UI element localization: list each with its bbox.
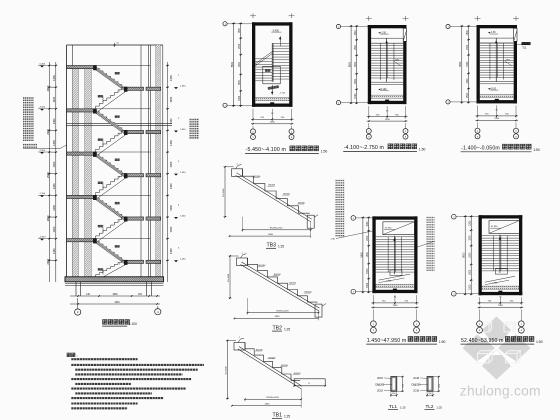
svg-text:8@200: 8@200 — [256, 350, 264, 352]
svg-text:1450: 1450 — [52, 183, 56, 189]
svg-text:1450: 1450 — [169, 161, 173, 167]
svg-text:-1.400~-0.050m: -1.400~-0.050m — [461, 146, 500, 152]
svg-text:1:50: 1:50 — [321, 150, 328, 154]
svg-text:9X280=2520: 9X280=2520 — [276, 310, 289, 312]
svg-text:1.450: 1.450 — [180, 86, 186, 88]
svg-text:-4.000: -4.000 — [39, 107, 46, 109]
svg-text:J: J — [453, 217, 454, 219]
svg-text:2900: 2900 — [46, 258, 50, 264]
svg-text:zhulong.com: zhulong.com — [460, 383, 541, 398]
svg-text:2C18: 2C18 — [413, 390, 419, 393]
svg-text:5600: 5600 — [350, 61, 352, 67]
svg-text:1450: 1450 — [52, 75, 56, 81]
svg-text:1500: 1500 — [239, 79, 241, 85]
svg-text:2900: 2900 — [46, 85, 50, 91]
svg-text:-1.100: -1.100 — [39, 193, 46, 195]
svg-text:9X280=2520: 9X280=2520 — [266, 397, 279, 399]
svg-text:1500: 1500 — [355, 44, 357, 50]
svg-text:1500: 1500 — [393, 305, 399, 307]
svg-text:1:25: 1:25 — [284, 415, 290, 419]
svg-text:1500: 1500 — [467, 44, 469, 50]
svg-text:1450: 1450 — [52, 118, 56, 124]
svg-text:1:25: 1:25 — [284, 327, 290, 331]
svg-text:8@200: 8@200 — [254, 176, 262, 178]
svg-text:1:25: 1:25 — [278, 245, 284, 249]
svg-text:-4.100~-2.750 m: -4.100~-2.750 m — [344, 145, 384, 151]
svg-text:1500: 1500 — [355, 61, 357, 67]
svg-text:1500: 1500 — [355, 93, 357, 99]
svg-text:2C18: 2C18 — [377, 377, 383, 380]
svg-text:J: J — [338, 103, 339, 105]
svg-text:-2.550: -2.550 — [39, 150, 46, 152]
svg-text:TL1: TL1 — [522, 47, 527, 50]
svg-text:TL1: TL1 — [389, 404, 397, 409]
svg-text:J: J — [353, 292, 354, 294]
svg-text:12x260: 12x260 — [103, 267, 105, 274]
svg-text:J: J — [338, 27, 339, 29]
svg-text:1:25: 1:25 — [400, 406, 406, 410]
svg-text:1:100: 1:100 — [129, 322, 137, 326]
svg-text:8@200: 8@200 — [281, 365, 289, 367]
svg-text:1500: 1500 — [239, 27, 241, 33]
svg-text:8@200: 8@200 — [283, 194, 291, 196]
svg-text:8@200: 8@200 — [274, 274, 282, 276]
svg-text:J: J — [224, 24, 225, 26]
svg-text:8@200: 8@200 — [269, 357, 277, 359]
svg-text:5600: 5600 — [232, 61, 234, 67]
svg-text:8@200: 8@200 — [268, 185, 276, 187]
svg-text:1500: 1500 — [355, 30, 357, 36]
svg-text:1500: 1500 — [467, 78, 469, 84]
svg-text:1450: 1450 — [52, 248, 56, 254]
svg-text:1450: 1450 — [52, 226, 56, 232]
svg-text:12x260: 12x260 — [103, 138, 105, 145]
svg-text:1500: 1500 — [470, 252, 472, 258]
svg-text:1500: 1500 — [239, 61, 241, 67]
svg-text:1450: 1450 — [169, 140, 173, 146]
svg-text:1500: 1500 — [270, 122, 276, 124]
svg-text:J: J — [447, 102, 448, 104]
svg-text:-5.450~-4.100 m: -5.450~-4.100 m — [246, 147, 286, 153]
svg-text:2C18: 2C18 — [377, 390, 383, 393]
svg-text:10=1500: 10=1500 — [228, 273, 230, 282]
svg-text:1500: 1500 — [367, 221, 369, 227]
svg-text:1:50: 1:50 — [419, 148, 426, 152]
svg-text:5600: 5600 — [460, 61, 462, 67]
svg-text:1500: 1500 — [470, 235, 472, 241]
svg-text:2900: 2900 — [46, 128, 50, 134]
svg-text:1500: 1500 — [367, 251, 369, 257]
svg-text:10=1500: 10=1500 — [223, 188, 225, 197]
svg-text:2860: 2860 — [275, 316, 281, 318]
svg-text:5600: 5600 — [464, 252, 466, 258]
svg-text:1:50: 1:50 — [439, 340, 446, 344]
svg-text:-5.450: -5.450 — [39, 63, 46, 65]
svg-text:1:50: 1:50 — [536, 340, 543, 344]
svg-text:2900: 2900 — [46, 172, 50, 178]
svg-text:1500: 1500 — [467, 92, 469, 98]
svg-text:2C18: 2C18 — [413, 377, 419, 380]
svg-text:8@200: 8@200 — [305, 292, 313, 294]
svg-text:J: J — [453, 294, 454, 296]
svg-text:47.950: 47.950 — [491, 226, 498, 228]
svg-text:1500: 1500 — [367, 282, 369, 288]
svg-text:1450: 1450 — [52, 96, 56, 102]
svg-text:TL2: TL2 — [426, 404, 434, 409]
svg-text:5600: 5600 — [361, 251, 363, 257]
svg-text:1500: 1500 — [367, 268, 369, 274]
svg-text:1500: 1500 — [467, 61, 469, 67]
svg-text:1.450~47.950 m: 1.450~47.950 m — [367, 338, 407, 344]
svg-text:J: J — [224, 105, 225, 107]
svg-text:1500: 1500 — [470, 269, 472, 275]
svg-text:1500: 1500 — [498, 305, 504, 307]
svg-text:3440: 3440 — [114, 302, 120, 304]
svg-text:8@200: 8@200 — [294, 373, 302, 375]
svg-text:1450: 1450 — [52, 161, 56, 167]
svg-text:12x260: 12x260 — [103, 181, 105, 188]
svg-text:1500: 1500 — [367, 235, 369, 241]
svg-text:8@200: 8@200 — [289, 283, 297, 285]
svg-text:12x260: 12x260 — [103, 94, 105, 101]
svg-text:TB1: TB1 — [273, 413, 283, 419]
svg-text:52.450~53.950 m: 52.450~53.950 m — [461, 338, 504, 344]
svg-text:2860: 2860 — [268, 234, 274, 236]
svg-text:-2.750: -2.750 — [279, 92, 286, 94]
svg-text:1450: 1450 — [169, 96, 173, 102]
svg-text:1500: 1500 — [470, 284, 472, 290]
svg-text:8@200: 8@200 — [259, 265, 267, 267]
svg-text:1500: 1500 — [494, 118, 500, 120]
svg-text:1500: 1500 — [467, 30, 469, 36]
svg-text:1.450: 1.450 — [492, 283, 498, 285]
svg-text:1500: 1500 — [470, 220, 472, 226]
svg-text:10=1500: 10=1500 — [226, 366, 228, 375]
svg-text:8@200: 8@200 — [298, 203, 306, 205]
svg-text:1500: 1500 — [355, 78, 357, 84]
svg-text:1450: 1450 — [169, 118, 173, 124]
svg-text:1.450: 1.450 — [180, 129, 186, 131]
svg-text:--0.350: --0.350 — [39, 236, 47, 238]
svg-text:J: J — [447, 27, 448, 29]
svg-text:1.450: 1.450 — [386, 281, 392, 283]
svg-text:TB2: TB2 — [273, 325, 283, 331]
svg-text:47.950: 47.950 — [385, 227, 392, 229]
svg-text:1450: 1450 — [169, 204, 173, 210]
svg-text:1500: 1500 — [239, 95, 241, 101]
svg-text:1450: 1450 — [169, 75, 173, 81]
svg-text:9X280=2520: 9X280=2520 — [270, 228, 283, 230]
svg-text:3600: 3600 — [112, 294, 118, 296]
svg-text::: : — [77, 353, 78, 358]
svg-text:1.450: 1.450 — [180, 172, 186, 174]
svg-text:1:25: 1:25 — [437, 406, 443, 410]
svg-text:1450: 1450 — [169, 248, 173, 254]
svg-text:1450: 1450 — [169, 183, 173, 189]
svg-text:2900: 2900 — [46, 215, 50, 221]
svg-text:1:50: 1:50 — [533, 148, 540, 152]
svg-text:1500: 1500 — [385, 119, 391, 121]
svg-text:2860: 2860 — [265, 404, 271, 406]
svg-text:12x260: 12x260 — [103, 224, 105, 231]
svg-text:1.450: 1.450 — [180, 259, 186, 261]
svg-text:1.450: 1.450 — [180, 215, 186, 217]
svg-text:1450: 1450 — [169, 226, 173, 232]
svg-text:1450: 1450 — [52, 204, 56, 210]
svg-text:1450: 1450 — [52, 140, 56, 146]
svg-text:J: J — [353, 218, 354, 220]
svg-text:TB3: TB3 — [267, 243, 277, 249]
svg-text:1500: 1500 — [239, 43, 241, 49]
